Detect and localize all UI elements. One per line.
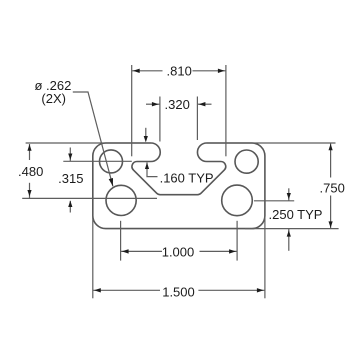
small hole upper-right <box>235 150 258 173</box>
dimension .320 line, left outside tail <box>146 103 160 105</box>
svg-text:.750: .750 <box>320 180 345 195</box>
centerline of lower-left mounting hole <box>22 197 157 199</box>
svg-text:(2X): (2X) <box>41 91 66 106</box>
dimension 1.500 right extension line <box>264 210 266 298</box>
dimension 1.500 left arrowhead <box>94 288 101 292</box>
dimension 1.000 left extension line <box>120 221 122 261</box>
dimension 1.000 right extension line <box>236 221 238 261</box>
mounting hole lower-left, dia .262 <box>106 185 136 215</box>
dimension .160 TYP lower arrowhead (points up) <box>145 163 149 169</box>
dimension .480 line, upper segment <box>29 144 31 160</box>
svg-text:.320: .320 <box>165 97 190 112</box>
dimension 1.500 line, right segment <box>198 289 265 291</box>
centerline of lower-right mounting hole <box>254 200 294 202</box>
leader arrowhead at lower-left hole <box>109 178 113 186</box>
extension line, top edge to the left <box>26 142 151 144</box>
dimension 1.000 left arrowhead <box>122 249 129 253</box>
svg-text:.160 TYP: .160 TYP <box>160 170 214 185</box>
centerline of upper-left small hole <box>63 160 132 162</box>
part outline: 1.500 x .750 track cross-section with central T-slot <box>93 143 265 229</box>
dimension .320 right extension line <box>196 97 198 141</box>
dimension .480 line, lower segment <box>29 183 31 199</box>
dimension .160 TYP upper arrowhead (points down) <box>144 136 148 142</box>
dimension .810 left extension line <box>131 65 133 156</box>
dimension .750 lower arrowhead (points down) <box>329 221 333 227</box>
dimension .250 TYP upper arrow tail <box>288 188 290 201</box>
dimension .320 line, right outside tail <box>197 103 211 105</box>
dimension .250 TYP upper arrowhead (points down) <box>287 193 291 199</box>
dimension .160 TYP lower arrow tail with elbow to label <box>147 162 158 176</box>
extension line, bottom edge to the right <box>245 228 339 230</box>
svg-text:.480: .480 <box>18 164 43 179</box>
dimension .810 line, left segment <box>132 70 163 72</box>
dimension .810 right arrowhead <box>218 69 225 73</box>
dimension .480 upper arrowhead (points up) <box>27 144 31 150</box>
dimension 1.000 line, right segment <box>200 250 238 252</box>
dimension .810 line, right segment <box>193 70 226 72</box>
dimension .320 right arrowhead <box>199 102 206 106</box>
svg-text:.315: .315 <box>58 171 83 186</box>
dimension .320 left arrowhead <box>152 102 159 106</box>
dimension .750 line, lower segment <box>330 196 332 229</box>
dimension .750 line, upper segment <box>330 143 332 177</box>
dimension 1.500 line, left segment <box>93 289 160 291</box>
dimension .750 upper arrowhead (points up) <box>329 144 333 150</box>
svg-text:.250 TYP: .250 TYP <box>269 207 323 222</box>
dimension .320 left extension line <box>159 97 161 142</box>
leader line from dia .262 (2X) note to lower-left hole <box>73 92 113 186</box>
svg-text:1.500: 1.500 <box>162 284 195 299</box>
dimension .250 TYP lower arrow tail <box>288 229 290 251</box>
dimension .315 upper arrowhead (points down) <box>68 154 72 160</box>
dimension .160 TYP upper arrow tail <box>145 128 147 137</box>
small hole upper-left <box>100 150 123 173</box>
dimension 1.000 line, left segment <box>121 250 162 252</box>
dimension 1.000 right arrowhead <box>229 249 236 253</box>
dimension .315 lower arrow tail <box>69 201 71 213</box>
dimension .250 TYP lower arrowhead (points up) <box>287 230 291 236</box>
mounting hole lower-right, dia .262 <box>222 185 253 216</box>
dimension .810 right extension line <box>225 65 227 156</box>
extension line, top edge to the right <box>207 142 336 144</box>
svg-text:1.000: 1.000 <box>162 244 195 259</box>
dimension .810 left arrowhead <box>133 69 140 73</box>
dimension .315 lower arrowhead (points up) <box>68 201 72 207</box>
dimension .315 upper arrow tail <box>69 148 71 162</box>
dimension .480 lower arrowhead (points down) <box>27 190 31 196</box>
dimension 1.500 left extension line <box>92 210 94 298</box>
dimension 1.500 right arrowhead <box>257 288 264 292</box>
svg-text:.810: .810 <box>167 64 192 79</box>
